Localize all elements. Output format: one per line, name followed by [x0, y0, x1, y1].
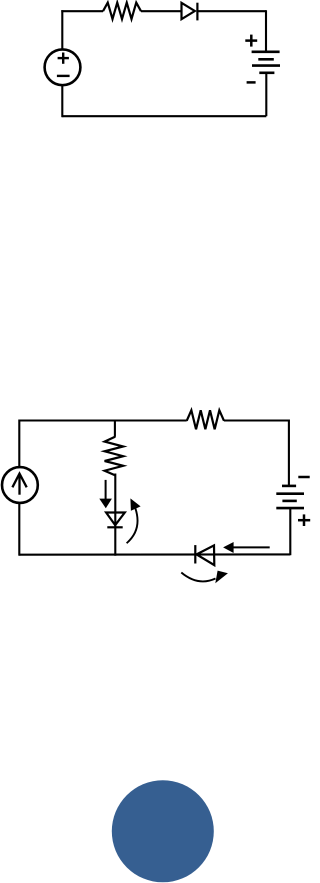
current arrow: downward arrow beside middle branch — [99, 480, 112, 508]
wire: top-left horizontal segment — [61, 10, 103, 12]
wire: top horizontal left of R2 — [19, 419, 186, 421]
wire: top horizontal right of R2 — [224, 419, 289, 421]
wire: top-right horizontal segment — [197, 10, 266, 12]
diode D2 — [106, 513, 125, 528]
resistor R1 — [103, 3, 141, 19]
blue circle — [112, 780, 214, 882]
wire: left vertical above current source — [18, 420, 20, 468]
voltage source V1 — [45, 49, 81, 85]
diode D3 — [195, 545, 214, 565]
wire: bottom horizontal of bottom circuit — [19, 553, 290, 555]
wire: left vertical above source — [61, 10, 63, 49]
battery B2 — [276, 486, 304, 508]
wire: middle branch from R3 to bottom wire — [114, 474, 116, 556]
wire: right vertical from corner to battery top — [265, 10, 267, 52]
battery B1 polarity label + — [245, 35, 257, 47]
wire: top middle segment between R1 and D1 — [141, 10, 182, 12]
current arrow: leftward arrow above bottom wire — [223, 542, 270, 553]
wire: left vertical below source — [61, 86, 63, 118]
battery B1 — [252, 52, 280, 73]
battery B2 polarity label + — [298, 514, 310, 526]
resistor R2 — [187, 410, 224, 429]
current source I1 — [2, 467, 38, 503]
resistor R3 — [105, 437, 124, 476]
wire: right vertical above battery B2 — [288, 420, 290, 487]
battery B1 polarity label - — [247, 81, 256, 84]
wire: bottom horizontal of top circuit — [62, 115, 266, 117]
wire: right vertical below battery B2 — [289, 508, 291, 555]
wire: right vertical from battery bottom to corner — [265, 73, 267, 116]
battery B2 polarity label - — [298, 476, 309, 479]
curved arrow: loop arrow right of D2 — [127, 498, 141, 543]
wire: middle branch stub from top wire — [114, 421, 116, 437]
curved arrow: loop arrow below D3 — [181, 571, 228, 584]
wire: left vertical below current source — [18, 503, 20, 556]
diode D1 — [182, 3, 198, 21]
